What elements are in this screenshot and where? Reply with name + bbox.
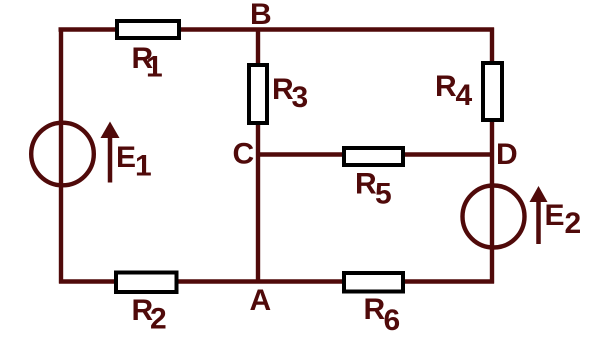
svg-text:2: 2 bbox=[150, 303, 167, 336]
svg-text:E: E bbox=[116, 141, 136, 174]
svg-text:1: 1 bbox=[146, 51, 163, 84]
svg-text:6: 6 bbox=[384, 304, 401, 337]
svg-text:B: B bbox=[250, 0, 272, 31]
svg-text:5: 5 bbox=[375, 178, 392, 211]
svg-text:2: 2 bbox=[565, 207, 582, 240]
svg-text:R: R bbox=[355, 168, 377, 201]
svg-text:1: 1 bbox=[135, 150, 152, 183]
svg-text:4: 4 bbox=[456, 79, 473, 112]
svg-text:E: E bbox=[545, 199, 565, 232]
svg-text:D: D bbox=[496, 138, 518, 171]
svg-text:3: 3 bbox=[292, 81, 309, 114]
svg-text:A: A bbox=[250, 284, 272, 317]
svg-text:R: R bbox=[364, 293, 386, 326]
svg-text:R: R bbox=[435, 70, 457, 103]
svg-text:C: C bbox=[233, 138, 255, 171]
